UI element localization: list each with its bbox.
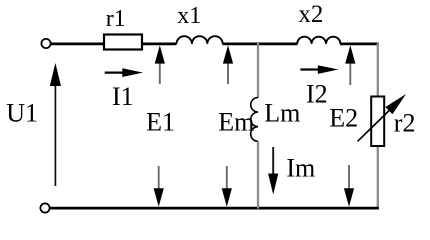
wire top: terminal to r1 bbox=[51, 43, 104, 46]
emf arrow E2 down bbox=[348, 165, 350, 189]
wire x2 to right corner bbox=[340, 43, 379, 46]
bottom wire bbox=[50, 207, 379, 210]
emf arrow Em up bbox=[227, 61, 229, 84]
inductor Lm bbox=[251, 98, 258, 142]
terminal top-left bbox=[41, 39, 50, 48]
svg-text:E2: E2 bbox=[329, 103, 358, 132]
svg-text:I1: I1 bbox=[112, 82, 134, 111]
svg-text:r2: r2 bbox=[394, 108, 416, 137]
svg-text:I2: I2 bbox=[306, 80, 328, 109]
svg-text:r1: r1 bbox=[106, 6, 126, 32]
resistor R1 body bbox=[104, 35, 142, 50]
svg-text:Em: Em bbox=[218, 108, 254, 137]
svg-text:Lm: Lm bbox=[264, 99, 300, 128]
wire x1 to x2 (through node A) bbox=[223, 43, 298, 46]
emf arrow E1 up bbox=[159, 61, 161, 84]
right vertical wire lower bbox=[377, 145, 379, 209]
current arrow I2 bbox=[300, 68, 319, 70]
svg-text:E1: E1 bbox=[146, 107, 175, 136]
current arrow I1 bbox=[105, 71, 125, 73]
emf arrow Em down bbox=[226, 166, 228, 189]
svg-text:x2: x2 bbox=[298, 1, 323, 28]
svg-text:x1: x1 bbox=[177, 3, 201, 29]
svg-text:U1: U1 bbox=[6, 98, 38, 127]
svg-text:Im: Im bbox=[286, 154, 315, 183]
resistor r2 body bbox=[371, 97, 384, 147]
right vertical wire upper bbox=[377, 43, 379, 97]
inductor x1 bbox=[177, 36, 223, 44]
emf arrow E2 up bbox=[349, 61, 351, 85]
emf arrow E1 down bbox=[158, 166, 160, 189]
wire r1 to x1 bbox=[143, 43, 177, 46]
inductor x2 bbox=[297, 37, 340, 44]
variable-resistor arrow through r2 bbox=[358, 110, 390, 141]
voltage arrow U1 bbox=[54, 84, 56, 186]
magnetizing branch wire upper bbox=[257, 43, 259, 98]
magnetizing branch wire lower bbox=[257, 141, 259, 208]
terminal bottom-left bbox=[40, 203, 49, 212]
current arrow Im bbox=[272, 147, 274, 175]
